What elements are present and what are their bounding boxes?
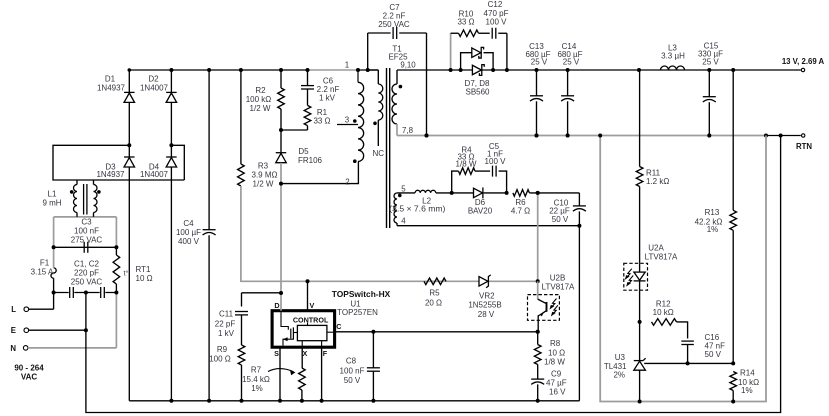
svg-text:F1: F1 [40,259,50,268]
diode D6 [452,187,509,215]
wire E drop [84,293,88,333]
snubber R10 left drop (gray) [449,33,453,72]
resistor R5 [424,278,446,308]
wire C pin line [335,330,540,334]
svg-text:100 V: 100 V [485,157,507,166]
wire X pin [301,347,303,368]
svg-text:R3: R3 [258,162,269,171]
svg-text:E: E [11,326,16,335]
wire RTN rail end [764,134,801,138]
wire secondary ground box (gray) [598,134,766,402]
pin 2 label [345,178,349,187]
svg-text:VAC: VAC [21,373,38,382]
zener VR2 [468,275,501,319]
svg-text:U2A: U2A [648,244,664,253]
svg-text:D1: D1 [105,75,116,84]
wire pin2 to drain [281,162,358,184]
resistor R11 [636,70,669,263]
svg-text:2%: 2% [613,371,625,380]
svg-text:25 V: 25 V [702,58,719,67]
svg-text:90 - 264: 90 - 264 [14,364,44,373]
inductor L3 [637,44,685,73]
svg-text:7,8: 7,8 [402,126,414,135]
terminal N [10,344,28,353]
svg-text:100 µF: 100 µF [176,228,201,237]
svg-text:3.9 MΩ: 3.9 MΩ [252,171,278,180]
wire S pin [278,347,282,403]
node L2 out [450,191,454,195]
svg-text:TOP257EN: TOP257EN [337,308,378,317]
wire drain branch [242,293,282,307]
svg-text:4: 4 [401,217,406,226]
wire clamp node [279,128,308,132]
svg-text:C1, C2: C1, C2 [74,260,99,269]
diode D8 [465,65,491,97]
wire top DC rail [128,68,379,72]
resistor R3 [238,68,278,189]
wire fuse to EMI top (gray) [53,217,55,268]
pin label D [274,301,279,310]
svg-text:LTV817A: LTV817A [542,282,575,291]
svg-text:R9: R9 [217,345,228,354]
svg-text:9 mH: 9 mH [42,199,61,208]
svg-text:100 V: 100 V [486,18,508,27]
svg-text:VR2: VR2 [479,292,495,301]
resistor R14 [730,369,759,402]
svg-text:250 VAC: 250 VAC [378,20,410,29]
svg-text:BAV20: BAV20 [468,207,493,216]
svg-text:50 V: 50 V [705,350,722,359]
svg-text:1/8 W: 1/8 W [456,159,477,168]
wire RTN rail (gray) [397,134,766,138]
svg-text:10 Ω: 10 Ω [548,348,565,357]
svg-text:1%: 1% [707,225,719,234]
svg-text:20 Ω: 20 Ω [425,299,442,308]
terminal RTN [796,134,812,151]
shunt regulator U3 TL431 [604,353,688,402]
capacitor C14 [557,42,582,138]
svg-text:1 kV: 1 kV [218,329,235,338]
svg-text:RTN: RTN [796,142,812,151]
wire R3 to V pin (gray) [241,186,538,281]
wire D pin (gray) [279,291,283,311]
svg-text:16 V: 16 V [549,387,566,396]
capacitor C15 [698,42,723,138]
capacitor C13 [525,42,550,138]
svg-text:LTV817A: LTV817A [645,252,678,261]
resistor R13 [695,70,737,363]
node AC-A dot [127,143,131,147]
pin label C [336,322,341,331]
pin label F [323,349,328,358]
svg-text:C4: C4 [183,219,194,228]
wire AC node B [171,145,184,180]
wire L to fuse [29,308,54,310]
svg-text:C: C [336,322,341,331]
wire ref line [688,361,736,365]
svg-text:28 V: 28 V [478,310,495,319]
capacitor C8 [340,330,380,403]
pin label X [303,349,308,358]
svg-text:4.7 Ω: 4.7 Ω [511,207,530,216]
svg-text:FR106: FR106 [298,156,323,165]
wire pin4 line [397,225,579,227]
svg-text:C12: C12 [488,0,503,9]
wire F pin [320,347,324,403]
transformer T1 secondary winding 9,10-7,8 [392,61,416,136]
diode D3 [96,145,134,400]
svg-text:47 µF: 47 µF [546,378,567,387]
svg-text:D: D [274,301,279,310]
diode D4 [140,145,177,400]
node R14 bottom [731,400,735,404]
optocoupler U2B phototransistor [528,274,576,332]
resistor R12 [652,300,688,339]
svg-text:R14: R14 [740,369,755,378]
svg-text:3.15 A: 3.15 A [31,268,54,277]
diode D2 [140,68,177,145]
svg-text:100 kΩ: 100 kΩ [246,95,272,104]
node TL431 anode [638,400,642,404]
svg-text:25 V: 25 V [531,58,548,67]
svg-text:CONTROL: CONTROL [293,315,329,324]
svg-text:22 pF: 22 pF [215,319,236,328]
svg-text:C3: C3 [81,218,92,227]
svg-text:V: V [310,301,315,310]
svg-text:1N4937: 1N4937 [96,170,125,179]
capacitor C7 [366,3,429,137]
wire LED to TL431 [638,290,642,360]
svg-text:C11: C11 [219,310,234,319]
wire V pin [307,281,309,310]
svg-text:10 Ω: 10 Ω [136,274,153,283]
label T1 EF25 [388,45,408,62]
wire pin5 line [397,192,415,194]
svg-text:U2B: U2B [550,274,566,283]
capacitor C12 [484,0,509,72]
svg-text:1 kV: 1 kV [319,94,336,103]
resistor R8 [534,330,565,367]
svg-text:1: 1 [345,61,349,70]
svg-text:33 Ω: 33 Ω [313,117,330,126]
wire primary ground rail [129,399,579,403]
svg-text:R5: R5 [429,289,440,298]
label TOPSwitch-HX [332,289,391,317]
wire bias to opto (gray) [536,191,540,281]
label 90-264 VAC [14,364,44,382]
wire EMI right drop (gray) [115,217,117,247]
resistor R4 [452,145,490,193]
TOPSwitch U1 block [272,311,335,348]
fuse F1 [31,259,57,310]
node AC-B dot [169,143,173,147]
wire E line [29,329,86,331]
pin label S [274,349,279,358]
capacitor C4 [176,68,216,403]
wire secondary output rail [397,69,801,71]
node pin1 [345,61,360,73]
svg-text:SB560: SB560 [465,88,490,97]
svg-text:9,10: 9,10 [400,61,416,70]
wire N line (gray) [28,347,116,349]
svg-text:1N4007: 1N4007 [140,170,169,179]
svg-text:RT1: RT1 [136,265,152,274]
svg-text:1/2 W: 1/2 W [253,180,274,189]
svg-text:S: S [274,349,279,358]
svg-text:1%: 1% [251,384,263,393]
wire C10 column to primary gnd [578,226,580,401]
transformer T1 primary winding [353,70,364,163]
svg-text:25 V: 25 V [563,58,580,67]
inductor L2 [389,190,451,213]
svg-text:U3: U3 [615,353,626,362]
resistor R10 [451,10,490,37]
diode D1 [97,70,135,145]
capacitors C1 C2 [52,260,119,299]
svg-text:400 V: 400 V [178,237,200,246]
svg-text:1/8 W: 1/8 W [544,357,565,366]
svg-text:5: 5 [401,185,406,194]
svg-text:275 VAC: 275 VAC [71,236,103,245]
svg-text:N: N [10,344,16,353]
svg-text:L: L [11,305,16,314]
capacitor C9 [531,365,567,403]
svg-text:1/2 W: 1/2 W [250,104,271,113]
svg-text:50 V: 50 V [552,215,569,224]
thermistor RT1 [113,247,153,292]
transformer T1 bias winding 5-4 [394,185,406,226]
optocoupler U2A LED [624,244,678,291]
svg-text:X: X [303,349,308,358]
svg-text:33 Ω: 33 Ω [457,18,474,27]
svg-text:R8: R8 [550,339,561,348]
capacitor C3 [52,218,119,253]
wire EMI top rail (gray) [54,216,117,218]
svg-text:15.4 kΩ: 15.4 kΩ [242,375,270,384]
svg-text:R13: R13 [705,208,720,217]
node drain junction [279,182,283,186]
svg-text:NC: NC [373,149,385,158]
capacitor C16 [681,333,725,365]
capacitor C5 [485,142,507,193]
node opto collector [536,279,540,283]
capacitor C11 [215,310,248,346]
transformer T1 bias winding NC [368,70,385,158]
wire AC node A [53,145,184,180]
terminal L [11,305,28,314]
wire N riser (gray) [115,293,117,348]
svg-text:10 kΩ: 10 kΩ [653,308,674,317]
transformer T1 core [387,68,390,228]
resistor R1 [304,89,330,130]
svg-text:TOPSwitch-HX: TOPSwitch-HX [332,289,391,299]
capacitor C6 [301,68,339,103]
svg-text:3.3 µH: 3.3 µH [661,52,685,61]
pin 3 tap [337,116,358,125]
wire earth bottom [86,136,781,413]
svg-text:C8: C8 [346,357,357,366]
svg-text:220 pF: 220 pF [74,269,99,278]
svg-text:L1: L1 [48,190,57,199]
diode D5 [276,130,323,165]
svg-text:100 nF: 100 nF [74,227,99,236]
svg-text:(3.5 × 7.6 mm): (3.5 × 7.6 mm) [389,204,445,214]
pin label V [310,301,315,310]
svg-text:1.2 kΩ: 1.2 kΩ [646,177,669,186]
resistor R7 [242,365,305,403]
wire D5 to drain (gray) [280,163,282,293]
terminal E [11,326,29,335]
svg-text:1N4007: 1N4007 [140,84,169,93]
terminal 13V output [731,57,824,72]
svg-text:F: F [323,349,328,358]
svg-text:2: 2 [345,178,349,187]
svg-text:t°: t° [124,269,129,278]
svg-text:D2: D2 [148,75,159,84]
svg-text:C16: C16 [705,333,720,342]
svg-text:1%: 1% [741,386,753,395]
svg-text:3: 3 [345,116,350,125]
svg-text:13 V, 2.69 A: 13 V, 2.69 A [782,57,825,66]
svg-text:R2: R2 [255,86,266,95]
svg-text:C9: C9 [551,370,562,379]
node V pin [306,279,310,283]
diode D7 [459,47,496,72]
svg-text:50 V: 50 V [344,376,361,385]
resistor R6 [511,190,580,216]
svg-text:R7: R7 [251,365,262,374]
svg-text:250 VAC: 250 VAC [71,278,103,287]
svg-text:1N5255B: 1N5255B [468,301,501,310]
svg-text:100 Ω: 100 Ω [209,354,231,363]
capacitor C10 [549,193,586,228]
resistor R2 [246,68,285,130]
resistor R9 [209,345,245,403]
svg-text:100 nF: 100 nF [340,366,365,375]
common-mode choke L1 [42,180,100,217]
svg-text:1N4937: 1N4937 [97,84,126,93]
